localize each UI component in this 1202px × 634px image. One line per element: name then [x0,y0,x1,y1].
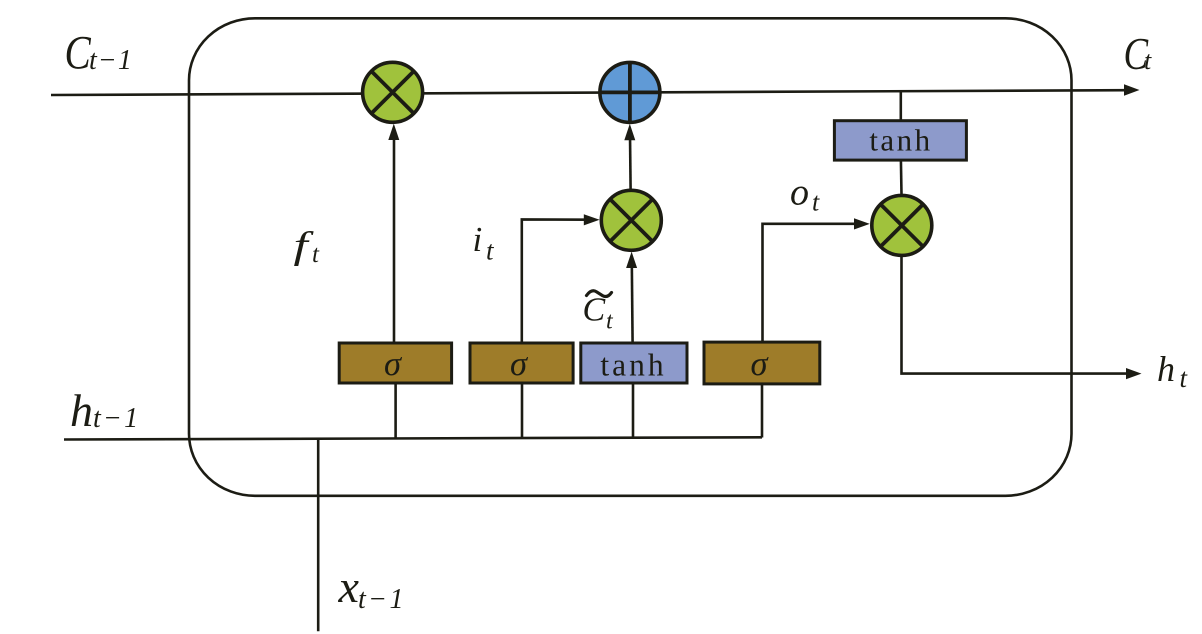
label C~_t (candidate) [583,291,615,335]
svg-text:t−1: t−1 [358,584,406,615]
svg-text:t: t [1144,46,1152,75]
wire: below tanh block down to h line [632,383,635,439]
svg-text:t: t [312,241,320,268]
svg-text:tanh: tanh [600,348,666,383]
multiply node (forget gate) green circle with X [363,62,423,122]
label h_t [1157,349,1189,393]
LSTM cell body (rounded rectangle) [189,18,1072,496]
svg-text:t−1: t−1 [89,45,133,76]
wire: x_{t-1} vertical input [317,438,320,631]
wire: cell-state line C (left to right) [51,90,1127,95]
svg-text:i: i [473,220,483,259]
wire: arrow from input multiply node up into add node [629,134,632,189]
svg-text:t−1: t−1 [93,403,140,434]
svg-text:h: h [70,385,93,436]
multiply node (input gate) green circle with X [601,190,661,250]
wire: f_t vertical arrow into multiply node [393,134,396,344]
svg-text:C: C [65,27,92,79]
svg-text:tanh: tanh [869,123,932,158]
add node blue circle with + [600,62,660,122]
label i_t [473,220,496,266]
wire: h_t output from output multiply node, down then right [902,257,1128,374]
tanh block (output path) [834,121,966,160]
wire: below sigma-i down to h line [521,383,524,439]
sigma block (output gate) [704,342,820,384]
svg-text:o: o [790,172,809,214]
tanh block (candidate) [581,343,687,383]
arrowhead of C_t output [1124,84,1140,96]
wire: branch from C line down through tanh to output multiply node [899,91,902,121]
svg-text:σ: σ [384,345,403,383]
label o_t [790,172,820,217]
multiply node (output gate) green circle with X [872,195,932,255]
wire: i_t elbow into input multiply node [522,219,590,343]
label C_t [1124,29,1153,79]
sigma block (forget gate) [339,343,451,383]
label C_{t-1} [65,27,133,79]
label x_{t-1} [338,561,406,615]
label f_t [294,224,321,268]
wire: o_t elbow into output multiply node [763,224,861,343]
label h_{t-1} [70,385,140,436]
svg-text:t: t [812,188,820,217]
sigma block (input gate) [470,343,573,383]
wire: h_{t-1} line along bottom [64,437,762,439]
wire: below sigma-o down to h line corner [761,384,764,438]
wire: candidate C~ arrow from tanh block up into input multiply node [630,262,633,344]
svg-text:σ: σ [510,345,529,383]
svg-text:h: h [1157,349,1175,389]
wire: below sigma-f down to h line [394,383,397,440]
svg-text:x: x [338,561,360,612]
svg-text:σ: σ [750,345,769,383]
